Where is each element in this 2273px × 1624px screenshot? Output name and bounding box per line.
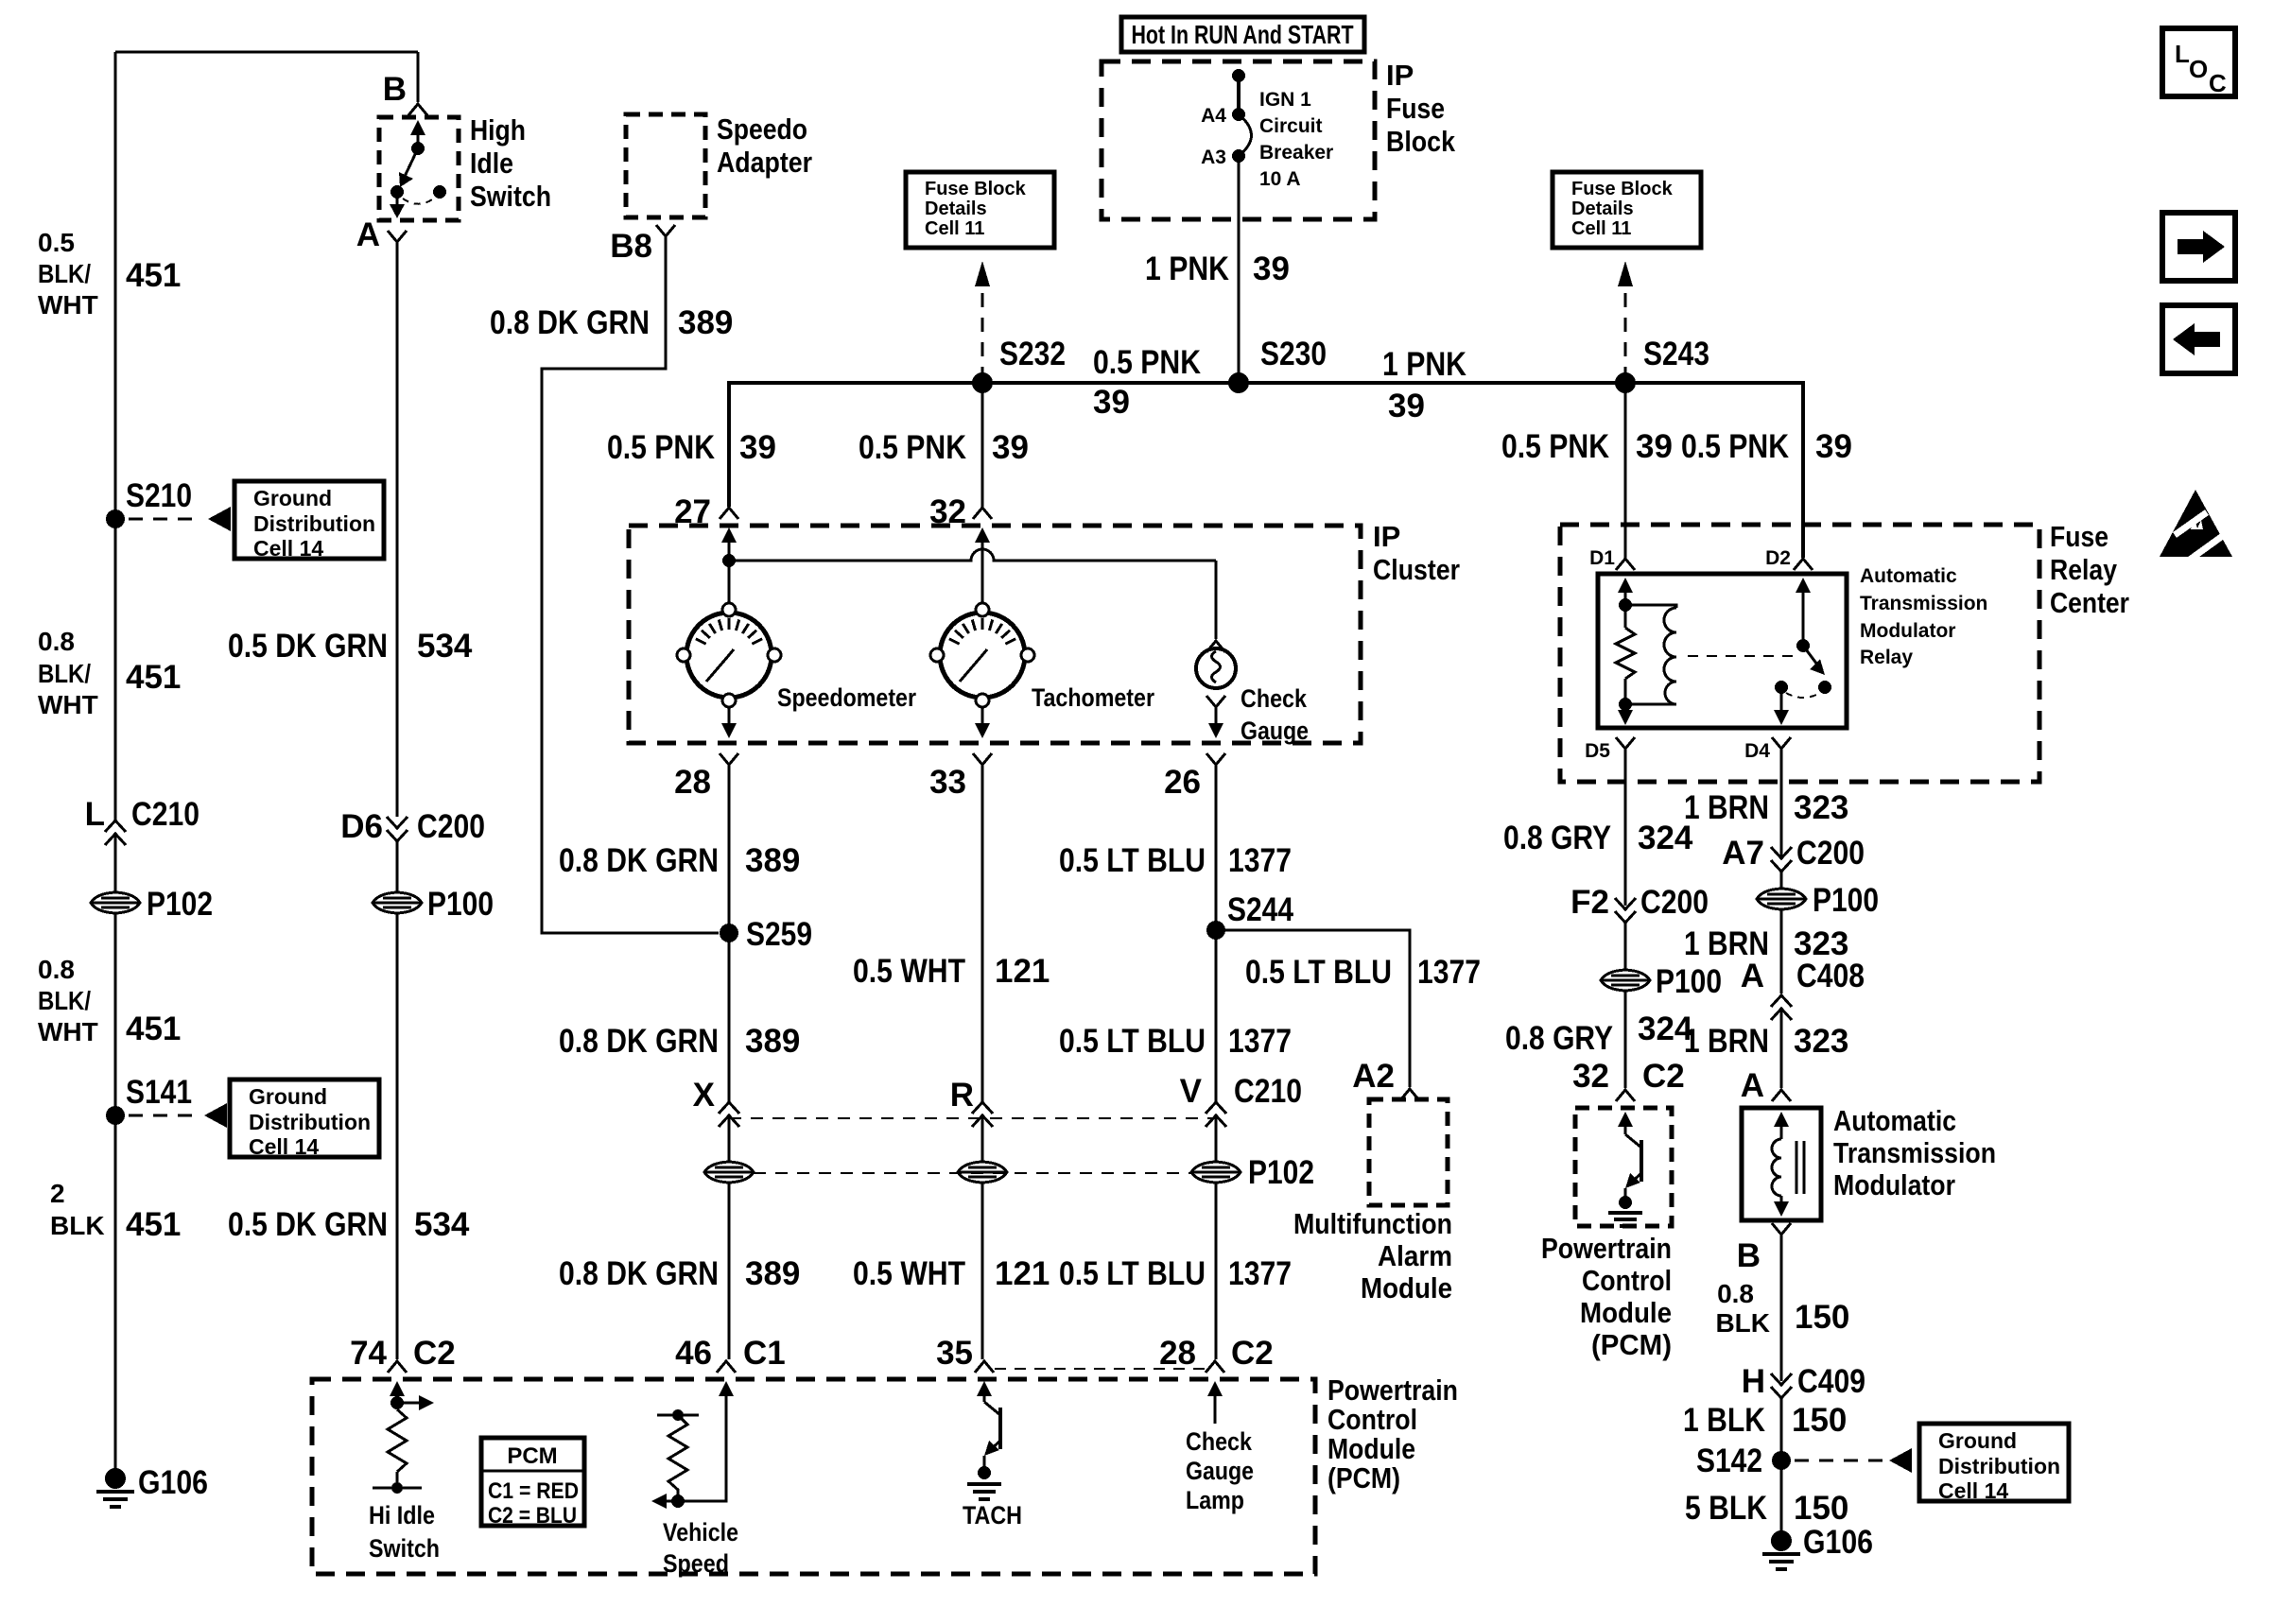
svg-text:39: 39 <box>1636 428 1673 465</box>
wire 0.5 PNK 39 from S243 down to relay pin D1 <box>1624 383 1627 558</box>
svg-text:32: 32 <box>929 493 966 530</box>
svg-text:D2: D2 <box>1765 547 1791 569</box>
svg-text:0.8 GRY: 0.8 GRY <box>1503 820 1611 856</box>
svg-text:S230: S230 <box>1260 336 1327 372</box>
terminal 26 of ip cluster <box>1206 753 1225 765</box>
wire 0.8 DK GRN 389 from P102 to PCM pin 46 <box>728 1183 731 1359</box>
svg-text:WHT: WHT <box>38 690 98 719</box>
svg-text:D5: D5 <box>1585 740 1610 762</box>
svg-text:0.5 LT BLU: 0.5 LT BLU <box>1245 954 1392 991</box>
loc symbol box top right <box>2162 28 2235 96</box>
svg-text:323: 323 <box>1794 1023 1848 1060</box>
svg-text:WHT: WHT <box>38 290 98 320</box>
svg-text:35: 35 <box>936 1335 973 1372</box>
svg-text:S259: S259 <box>746 916 812 953</box>
dashed reference arrow from S232 up to fuse block details <box>981 293 984 377</box>
high idle switch dashed box <box>379 117 459 220</box>
relay switch <box>1796 578 1811 593</box>
svg-text:1 PNK: 1 PNK <box>1145 251 1229 287</box>
svg-text:534: 534 <box>414 1206 470 1243</box>
modulator solenoid coil <box>1774 1112 1789 1127</box>
pass-through grommet P102 (check gauge wire) <box>1191 1162 1241 1183</box>
connector C200 pin A7 (inline) <box>1771 847 1792 872</box>
wire 0.5 WHT 121 from P102 to PCM pin 35 <box>981 1183 984 1359</box>
svg-text:32: 32 <box>1572 1058 1609 1095</box>
svg-text:Module: Module <box>1580 1296 1672 1329</box>
svg-text:Automatic: Automatic <box>1860 565 1957 587</box>
relay coil branch <box>1618 578 1633 593</box>
wire 1 BRN 323 from D4 to connector C200 pin A7 <box>1780 749 1783 856</box>
svg-text:Tachometer: Tachometer <box>1032 683 1154 712</box>
svg-text:Check: Check <box>1241 684 1308 713</box>
svg-text:A7: A7 <box>1722 835 1764 872</box>
svg-text:D4: D4 <box>1744 740 1770 762</box>
tach driver transistor inside PCM <box>977 1381 992 1396</box>
svg-text:39: 39 <box>739 429 776 466</box>
svg-text:534: 534 <box>417 628 473 665</box>
svg-text:Relay: Relay <box>2050 553 2118 586</box>
svg-text:Cell 14: Cell 14 <box>1938 1478 2008 1503</box>
svg-text:Cell 14: Cell 14 <box>249 1134 319 1159</box>
svg-text:0.5 WHT: 0.5 WHT <box>853 953 965 990</box>
svg-text:BLK/: BLK/ <box>38 986 91 1015</box>
automatic transmission modulator relay box <box>1598 574 1847 728</box>
svg-text:C2: C2 <box>1642 1058 1685 1095</box>
svg-text:P100: P100 <box>1656 963 1722 1000</box>
wire 0.5 DK GRN 534 from P100 to PCM pin 74 <box>396 913 399 1359</box>
node S243 <box>1615 372 1636 393</box>
svg-text:27: 27 <box>674 493 711 530</box>
node S259 <box>720 924 738 942</box>
svg-text:Idle: Idle <box>470 147 513 180</box>
svg-text:Transmission: Transmission <box>1860 593 1987 614</box>
wire 0.8 DK GRN 389 from B8 down and over to S259 <box>542 236 719 933</box>
svg-text:TACH: TACH <box>963 1501 1022 1529</box>
wire 0.5 WHT 121 from pin 33 to connector pin R <box>981 765 984 1104</box>
svg-text:S243: S243 <box>1643 336 1709 372</box>
svg-text:451: 451 <box>126 1011 181 1047</box>
wire 5 BLK 150 from S142 to G106 <box>1780 1460 1783 1541</box>
wire X to P102 <box>728 1115 731 1162</box>
wire R to P102 <box>981 1115 984 1162</box>
svg-text:1 PNK: 1 PNK <box>1382 346 1466 383</box>
svg-text:Fuse Block: Fuse Block <box>1571 179 1674 199</box>
connector C200 pin F2 (inline) <box>1615 898 1636 923</box>
svg-text:S244: S244 <box>1227 891 1293 928</box>
wire internal cluster feed with hop over tach wire <box>729 549 1216 561</box>
connector C409 pin H (inline) <box>1771 1373 1792 1398</box>
wire check gauge to pin 26 <box>1215 707 1218 724</box>
svg-text:A: A <box>356 216 380 253</box>
node S244 <box>1206 921 1225 940</box>
svg-text:Control: Control <box>1582 1264 1672 1297</box>
svg-text:Hot In RUN And START: Hot In RUN And START <box>1132 20 1354 49</box>
svg-text:BLK: BLK <box>50 1211 105 1240</box>
svg-text:0.5 PNK: 0.5 PNK <box>1501 428 1609 465</box>
svg-text:1 BLK: 1 BLK <box>1683 1402 1765 1439</box>
wire 0.8 BLK/WHT 451 from S210 to connector C210 pin L <box>114 519 117 820</box>
tachometer gauge <box>930 603 1034 707</box>
svg-text:150: 150 <box>1795 1299 1849 1336</box>
node S141 <box>106 1106 125 1125</box>
svg-text:Distribution: Distribution <box>253 511 375 536</box>
svg-text:5 BLK: 5 BLK <box>1685 1490 1767 1527</box>
svg-text:39: 39 <box>1253 251 1290 287</box>
svg-text:O: O <box>2189 55 2208 83</box>
wire 0.5 PNK 39 from S232 down to cluster pin 32 <box>981 383 984 507</box>
pass-through grommet P102 (speedo wire) <box>704 1162 754 1183</box>
wire A7 to P100 <box>1780 872 1783 889</box>
svg-text:0.5 DK GRN: 0.5 DK GRN <box>228 628 388 665</box>
svg-text:B: B <box>383 71 407 108</box>
wire left vertical 0.5 BLK/WHT 451 down to S210 <box>114 52 117 519</box>
svg-text:X: X <box>693 1077 716 1114</box>
svg-text:C409: C409 <box>1797 1363 1865 1400</box>
terminal 33 of ip cluster <box>973 753 992 765</box>
svg-text:A2: A2 <box>1352 1058 1395 1095</box>
svg-text:C408: C408 <box>1796 958 1865 994</box>
svg-text:Gauge: Gauge <box>1241 717 1309 745</box>
automatic transmission modulator box <box>1742 1108 1821 1220</box>
svg-text:D1: D1 <box>1589 547 1615 569</box>
relay suppression resistor <box>1616 628 1635 679</box>
svg-text:C210: C210 <box>131 796 200 833</box>
powertrain control module dashed box (bottom) <box>312 1379 1315 1574</box>
svg-text:0.8 DK GRN: 0.8 DK GRN <box>490 304 650 341</box>
ip fuse block dashed box <box>1102 61 1375 219</box>
wire top horizontal from left ground run to High Idle Switch B <box>115 51 418 54</box>
svg-text:Speedo: Speedo <box>717 112 807 146</box>
svg-text:39: 39 <box>1388 388 1425 424</box>
svg-text:G106: G106 <box>1803 1524 1873 1561</box>
svg-text:Powertrain: Powertrain <box>1327 1373 1458 1407</box>
relay coil <box>1625 605 1676 608</box>
terminal 28 of ip cluster <box>720 753 738 765</box>
wire speedometer output to pin 28 <box>728 707 731 724</box>
svg-text:Alarm: Alarm <box>1378 1239 1452 1272</box>
svg-text:P100: P100 <box>1813 882 1879 919</box>
svg-text:B8: B8 <box>610 228 652 265</box>
svg-text:0.8 DK GRN: 0.8 DK GRN <box>559 842 719 879</box>
svg-text:Gauge: Gauge <box>1186 1457 1254 1485</box>
multifunction alarm module dashed box <box>1369 1099 1448 1205</box>
svg-text:39: 39 <box>1093 384 1130 421</box>
svg-text:S232: S232 <box>999 336 1066 372</box>
relay driver transistor inside PCM <box>1618 1112 1633 1127</box>
svg-text:Control: Control <box>1327 1403 1417 1436</box>
svg-text:Details: Details <box>1571 199 1634 219</box>
svg-text:Center: Center <box>2050 586 2129 619</box>
svg-text:H: H <box>1742 1363 1765 1400</box>
svg-text:0.5 DK GRN: 0.5 DK GRN <box>228 1206 388 1243</box>
wire 0.8 GRY 324 from D5 to connector C200 pin F2 <box>1624 749 1627 906</box>
svg-text:Vehicle: Vehicle <box>663 1518 738 1546</box>
connector C210 pin L (double chevron) <box>105 821 126 845</box>
svg-text:2: 2 <box>50 1179 65 1208</box>
svg-text:PCM: PCM <box>507 1443 557 1469</box>
svg-text:Powertrain: Powertrain <box>1541 1232 1672 1265</box>
ip cluster dashed box <box>629 526 1361 743</box>
svg-text:121: 121 <box>995 1255 1050 1292</box>
svg-text:Module: Module <box>1327 1432 1415 1465</box>
svg-text:C200: C200 <box>417 808 485 845</box>
svg-text:0.5 LT BLU: 0.5 LT BLU <box>1059 1023 1206 1060</box>
speedo adapter dashed box <box>626 114 705 217</box>
svg-text:33: 33 <box>929 764 966 801</box>
switch contacts inside high idle switch <box>397 134 435 212</box>
connector C200 pin D6 (inline) <box>387 817 408 841</box>
svg-text:Distribution: Distribution <box>1938 1454 2060 1478</box>
wire 0.8 DK GRN 389 from pin 28 to connector C210 pin X <box>728 765 731 1104</box>
ground distribution cell 14 box (right) <box>1919 1424 2069 1501</box>
svg-text:Hi Idle: Hi Idle <box>369 1501 435 1529</box>
svg-text:0.5: 0.5 <box>38 228 75 257</box>
node S232 <box>972 372 993 393</box>
svg-text:A: A <box>1741 958 1764 994</box>
svg-text:Speedometer: Speedometer <box>777 683 916 712</box>
svg-text:1377: 1377 <box>1417 954 1481 991</box>
svg-text:Automatic: Automatic <box>1833 1104 1956 1137</box>
svg-text:V: V <box>1180 1073 1203 1110</box>
svg-text:26: 26 <box>1164 764 1201 801</box>
svg-text:IP: IP <box>1386 59 1414 92</box>
pcm connector legend box <box>481 1438 584 1526</box>
svg-text:150: 150 <box>1792 1402 1847 1439</box>
svg-text:0.8 DK GRN: 0.8 DK GRN <box>559 1255 719 1292</box>
svg-text:Transmission: Transmission <box>1833 1136 1996 1169</box>
svg-text:WHT: WHT <box>38 1017 98 1046</box>
svg-text:Relay: Relay <box>1860 647 1913 668</box>
svg-text:Fuse Block: Fuse Block <box>925 179 1027 199</box>
svg-text:IP: IP <box>1373 520 1400 553</box>
wire dashed reference link S142 to Ground Distribution <box>1795 1460 1883 1462</box>
svg-text:0.5 PNK: 0.5 PNK <box>607 429 715 466</box>
svg-text:451: 451 <box>126 659 181 696</box>
svg-text:0.8: 0.8 <box>38 627 75 656</box>
svg-text:0.5 LT BLU: 0.5 LT BLU <box>1059 1255 1206 1292</box>
svg-text:L: L <box>2175 40 2190 68</box>
svg-text:C1 = RED: C1 = RED <box>488 1478 579 1504</box>
svg-text:(PCM): (PCM) <box>1591 1328 1672 1361</box>
svg-text:S141: S141 <box>126 1074 192 1111</box>
svg-text:46: 46 <box>675 1335 712 1372</box>
svg-text:39: 39 <box>1815 428 1852 465</box>
dashed reference arrow from S243 up to fuse block details <box>1624 293 1627 377</box>
wire 0.8 BLK/WHT 451 from C210 to P102 <box>114 833 117 892</box>
svg-text:P102: P102 <box>147 886 213 923</box>
wire 0.8 GRY 324 from P100 to PCM pin 32 <box>1624 991 1627 1088</box>
svg-text:Breaker: Breaker <box>1259 142 1333 164</box>
svg-text:Speed: Speed <box>663 1549 729 1578</box>
svg-text:1377: 1377 <box>1228 1255 1292 1292</box>
wire dashed connector C210 tie line <box>729 1117 1216 1119</box>
svg-text:R: R <box>950 1077 974 1114</box>
wire 0.5 LT BLU 1377 branch from S244 to alarm module A2 <box>1216 930 1410 1087</box>
fuse block details cell 11 box (left) <box>906 172 1054 248</box>
svg-text:G106: G106 <box>138 1464 208 1501</box>
svg-text:0.5 WHT: 0.5 WHT <box>853 1255 965 1292</box>
wire dashed P102 tie line <box>754 1172 1191 1174</box>
wire 1 BRN 323 from P100 to connector C408 pin A <box>1780 909 1783 993</box>
terminal B8 of speedo adapter <box>656 225 675 236</box>
svg-text:Cell 11: Cell 11 <box>1571 218 1631 239</box>
svg-text:0.5 PNK: 0.5 PNK <box>1681 428 1789 465</box>
esd warning triangle symbol <box>2160 490 2232 560</box>
svg-text:C210: C210 <box>1234 1073 1302 1110</box>
wire dashed reference link S141 to Ground Distribution <box>129 1114 199 1117</box>
svg-text:P100: P100 <box>427 886 494 923</box>
speedometer gauge <box>677 603 781 707</box>
svg-text:Cell 14: Cell 14 <box>253 536 323 561</box>
pass-through grommet P102 (left) <box>91 892 140 913</box>
powertrain control module dashed box (right) <box>1575 1108 1672 1226</box>
node S210 <box>106 510 125 528</box>
svg-text:0.8 GRY: 0.8 GRY <box>1505 1020 1613 1057</box>
svg-text:1377: 1377 <box>1228 842 1292 879</box>
wire dashed reference link S210 to Ground Distribution <box>129 518 202 521</box>
svg-text:High: High <box>470 113 526 147</box>
fuse relay center dashed box <box>1560 525 2039 782</box>
wire dashed connector C1/C2 tie line <box>995 1368 1208 1370</box>
wire from junction down to speedometer <box>728 561 731 605</box>
hi idle switch sense resistor inside PCM <box>390 1381 405 1396</box>
svg-text:C2: C2 <box>413 1335 456 1372</box>
svg-text:BLK/: BLK/ <box>38 259 91 288</box>
vehicle speed sense circuit inside PCM <box>719 1381 734 1396</box>
check gauge lamp driver inside PCM <box>1207 1381 1223 1396</box>
svg-text:74: 74 <box>350 1335 387 1372</box>
svg-text:Distribution: Distribution <box>249 1110 371 1134</box>
svg-text:0.8: 0.8 <box>38 955 75 984</box>
wire 0.5 LT BLU 1377 from P102 to PCM pin 28 <box>1215 1183 1218 1359</box>
svg-text:Switch: Switch <box>369 1534 440 1563</box>
fuse block details cell 11 box (right) <box>1553 172 1701 248</box>
wire 2 BLK 451 from P102 to G106 <box>114 913 117 1478</box>
svg-text:C200: C200 <box>1796 835 1865 872</box>
svg-text:Switch: Switch <box>470 180 551 213</box>
svg-text:0.8: 0.8 <box>1717 1279 1754 1308</box>
svg-text:Lamp: Lamp <box>1186 1486 1244 1514</box>
svg-text:A3: A3 <box>1201 147 1226 168</box>
svg-text:150: 150 <box>1794 1490 1848 1527</box>
svg-text:Fuse: Fuse <box>2050 520 2108 553</box>
nav arrow left box <box>2162 305 2235 373</box>
pass-through grommet P100 (brown wire) <box>1757 889 1806 909</box>
svg-text:Ground: Ground <box>253 486 332 510</box>
ground G106 (left) <box>105 1468 126 1489</box>
svg-text:Module: Module <box>1361 1271 1452 1304</box>
svg-text:Cluster: Cluster <box>1373 553 1460 586</box>
wire 0.5 LT BLU 1377 from pin 26 to connector C210 pin V <box>1215 765 1218 1104</box>
wire from C200 D6 to P100 <box>396 841 399 892</box>
svg-text:D6: D6 <box>340 808 383 845</box>
svg-text:Circuit: Circuit <box>1259 115 1323 137</box>
hot in run and start tag box <box>1121 17 1364 52</box>
svg-text:1 BRN: 1 BRN <box>1684 1023 1769 1060</box>
svg-text:Ground: Ground <box>1938 1428 2017 1453</box>
svg-text:Details: Details <box>925 199 987 219</box>
svg-text:0.8 DK GRN: 0.8 DK GRN <box>559 1023 719 1060</box>
svg-text:0.5 PNK: 0.5 PNK <box>859 429 966 466</box>
svg-text:389: 389 <box>745 842 800 879</box>
svg-text:S142: S142 <box>1696 1443 1762 1479</box>
svg-text:C1: C1 <box>743 1335 786 1372</box>
svg-text:1377: 1377 <box>1228 1023 1292 1060</box>
svg-text:Block: Block <box>1386 125 1456 158</box>
svg-text:P102: P102 <box>1248 1154 1314 1191</box>
svg-text:B: B <box>1737 1237 1761 1274</box>
svg-text:C200: C200 <box>1640 884 1709 921</box>
svg-text:451: 451 <box>126 1206 181 1243</box>
svg-text:F2: F2 <box>1570 884 1609 921</box>
svg-text:451: 451 <box>126 257 181 294</box>
relay actuation dashed link <box>1688 655 1793 657</box>
node S230 <box>1228 372 1249 393</box>
wire V to P102 <box>1215 1115 1218 1162</box>
wire 0.5 DK GRN 534 from switch A to connector C200 pin D6 <box>396 242 399 817</box>
wire 1 BRN 323 from C408 to modulator pin A <box>1780 1009 1783 1088</box>
svg-text:389: 389 <box>745 1023 800 1060</box>
svg-text:389: 389 <box>678 304 733 341</box>
svg-text:389: 389 <box>745 1255 800 1292</box>
svg-text:(PCM): (PCM) <box>1327 1461 1400 1494</box>
wire 1 PNK 39 from breaker A3 to S230 <box>1238 156 1241 383</box>
pass-through grommet P102 (tach wire) <box>958 1162 1007 1183</box>
wire 0.8 BLK 150 from modulator B to connector C409 pin H <box>1780 1235 1783 1381</box>
wire 1 BLK 150 from C409 to S142 <box>1780 1398 1783 1460</box>
svg-text:C2 = BLU: C2 = BLU <box>488 1503 577 1529</box>
svg-text:C: C <box>2209 69 2227 97</box>
svg-text:1 BRN: 1 BRN <box>1684 789 1769 826</box>
svg-text:A4: A4 <box>1201 105 1226 127</box>
svg-text:10 A: 10 A <box>1259 168 1301 190</box>
svg-text:28: 28 <box>674 764 711 801</box>
svg-text:C2: C2 <box>1231 1335 1274 1372</box>
svg-text:S210: S210 <box>126 477 192 514</box>
ground G106 (right) <box>1771 1530 1792 1551</box>
svg-text:Modulator: Modulator <box>1860 620 1955 642</box>
svg-text:Modulator: Modulator <box>1833 1168 1955 1201</box>
circuit breaker IGN 1 inside fuse block <box>1232 69 1245 82</box>
svg-text:L: L <box>85 796 105 833</box>
svg-text:39: 39 <box>992 429 1029 466</box>
svg-text:Ground: Ground <box>249 1084 327 1109</box>
svg-text:Adapter: Adapter <box>717 146 812 179</box>
svg-text:BLK: BLK <box>1715 1308 1770 1338</box>
svg-text:Multifunction: Multifunction <box>1293 1207 1452 1240</box>
svg-text:A: A <box>1741 1067 1764 1104</box>
wire main ignition feed bus 39 <box>729 383 1803 558</box>
ground distribution cell 14 box (upper) <box>234 481 384 559</box>
wire F2 to P100 <box>1624 923 1627 970</box>
svg-text:Fuse: Fuse <box>1386 92 1445 125</box>
svg-text:IGN 1: IGN 1 <box>1259 89 1311 111</box>
svg-text:0.5 PNK: 0.5 PNK <box>1093 344 1201 381</box>
connector C408 pin A (inline) <box>1771 995 1792 1020</box>
svg-text:BLK/: BLK/ <box>38 659 91 688</box>
svg-text:0.5 LT BLU: 0.5 LT BLU <box>1059 842 1206 879</box>
nav arrow right box <box>2162 213 2235 281</box>
svg-text:323: 323 <box>1794 789 1848 826</box>
pass-through grommet P100 (PCM gray wire) <box>1601 970 1650 991</box>
wire tachometer output to pin 33 <box>981 707 984 724</box>
svg-text:Check: Check <box>1186 1427 1253 1456</box>
check gauge indicator lamp <box>1215 561 1218 639</box>
svg-text:121: 121 <box>995 953 1050 990</box>
node S142 <box>1772 1451 1791 1470</box>
pass-through grommet P100 (left) <box>373 892 422 913</box>
svg-text:Cell 11: Cell 11 <box>925 218 984 239</box>
